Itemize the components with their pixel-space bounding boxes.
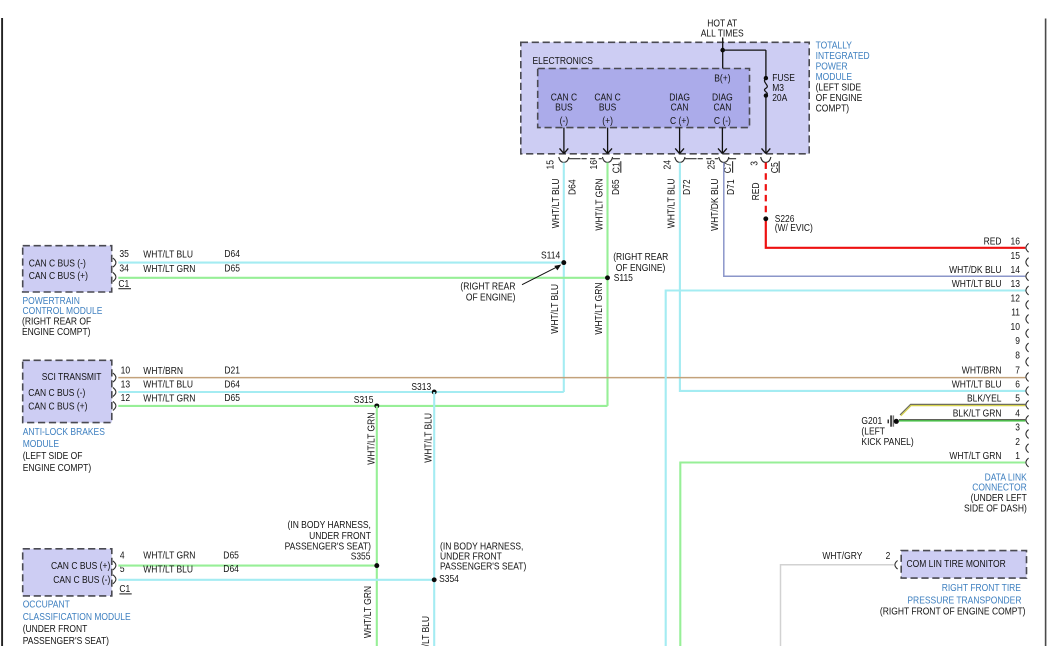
module Occupant Classification box [23,549,112,596]
svg-text:D65: D65 [224,264,240,275]
wire WHT/LT BLU D64 ABS pin13 to S114 drop [118,391,564,393]
svg-text:ENGINE COMPT): ENGINE COMPT) [23,463,92,474]
svg-text:ELECTRONICS: ELECTRONICS [533,56,593,67]
svg-text:(RIGHT REAR: (RIGHT REAR [613,252,668,263]
svg-text:WHT/LT BLU: WHT/LT BLU [952,279,1002,290]
wire WHT/LT BLU vertical S313 to S354 to bottom [433,392,435,646]
pin bracket ABS 10 [113,373,116,382]
svg-text:CAN C BUS (-): CAN C BUS (-) [28,388,85,399]
splice S355 [374,563,379,568]
wire BLK/YEL DLC pin 5 to G201 [900,404,1025,415]
module TIPM outer box (ELECTRONICS) [521,42,809,154]
svg-text:PASSENGER'S SEAT): PASSENGER'S SEAT) [23,636,109,646]
svg-text:3: 3 [750,161,761,166]
DLC pin 7 bracket and labels [1026,373,1029,382]
svg-text:5: 5 [1015,394,1020,405]
svg-text:SCI TRANSMIT: SCI TRANSMIT [42,372,102,383]
wire BLK/LT GRN DLC pin 4 to G201 [899,419,1025,421]
splice S114 [561,260,566,265]
ground G201 [888,420,890,424]
svg-text:15: 15 [1011,251,1021,262]
svg-text:C7: C7 [723,162,734,173]
wire WHT/LT GRN vertical S315 to S355 to bottom [376,406,378,646]
DLC pin 3 bracket and labels [1026,430,1029,439]
DLC pin 10 bracket and labels [1026,329,1029,338]
svg-text:S354: S354 [439,574,459,585]
svg-text:(IN BODY HARNESS,: (IN BODY HARNESS, [288,520,371,531]
svg-text:D64: D64 [224,379,240,390]
svg-text:ENGINE COMPT): ENGINE COMPT) [22,327,91,338]
DLC pin 16 bracket and labels [1026,243,1029,252]
svg-text:15: 15 [546,160,557,170]
svg-text:(RIGHT FRONT OF ENGINE COMPT): (RIGHT FRONT OF ENGINE COMPT) [880,606,1026,617]
svg-text:B(+): B(+) [714,74,730,85]
svg-text:PRESSURE TRANSPONDER: PRESSURE TRANSPONDER [907,596,1021,607]
splice S315 [374,403,379,408]
svg-text:3: 3 [1015,423,1020,434]
svg-text:WHT/LT GRN: WHT/LT GRN [143,393,195,404]
svg-text:WHT/LT GRN: WHT/LT GRN [595,179,606,231]
svg-text:CAN C BUS (-): CAN C BUS (-) [53,575,110,586]
svg-text:(UNDER FRONT: (UNDER FRONT [23,624,88,635]
right page border [1045,19,1047,646]
DLC pin 5 bracket and labels [1026,400,1029,409]
svg-text:WHT/DK BLU: WHT/DK BLU [949,265,1001,276]
wire RED dashed from pin 3 to S226 [765,163,767,219]
svg-text:BLK/LT GRN: BLK/LT GRN [953,409,1002,420]
svg-text:S115: S115 [614,273,633,284]
svg-text:COM LIN TIRE MONITOR: COM LIN TIRE MONITOR [907,559,1006,570]
svg-text:C1: C1 [611,162,622,173]
svg-text:WHT/LT BLU: WHT/LT BLU [667,179,678,229]
svg-text:16: 16 [589,160,600,170]
svg-text:S114: S114 [541,251,560,262]
module Anti-Lock Brakes box [23,360,112,422]
wire RED from S226 to DLC pin 16 [766,219,1026,248]
svg-text:WHT/LT BLU: WHT/LT BLU [551,179,562,229]
svg-text:RED: RED [751,183,762,201]
svg-text:TOTALLY: TOTALLY [816,41,852,52]
DLC pin 6 bracket and labels [1026,387,1029,396]
wire WHT/LT BLU D64 vertical from pin 15 [563,163,565,393]
splice S354 [432,577,437,582]
DLC pin 14 bracket and labels [1026,272,1029,281]
svg-text:20A: 20A [772,93,787,104]
svg-text:BLK/YEL: BLK/YEL [967,394,1002,405]
svg-text:(+): (+) [602,116,613,127]
svg-text:WHT/LT BLU: WHT/LT BLU [550,284,561,334]
svg-text:WHT/BRN: WHT/BRN [962,366,1002,377]
module COM LIN TIRE MONITOR box [901,551,1026,579]
svg-text:2: 2 [1015,437,1020,448]
svg-text:(LEFT SIDE: (LEFT SIDE [816,83,862,94]
wire WHT/LT GRN D65 OCM pin4 to S355 [118,565,377,567]
svg-text:CAN C BUS (-): CAN C BUS (-) [29,258,86,269]
svg-text:WHT/LT GRN: WHT/LT GRN [363,586,374,638]
svg-text:(-): (-) [560,116,569,127]
svg-text:WHT/LT BLU: WHT/LT BLU [421,616,432,646]
module Powertrain Control Module box [23,246,112,292]
svg-text:D72: D72 [682,179,693,195]
connector C1 pins 15-16 [559,157,569,162]
wire B(+) feed with junction [722,38,724,69]
svg-text:(RIGHT REAR OF: (RIGHT REAR OF [22,317,91,328]
svg-text:WHT/LT GRN: WHT/LT GRN [366,413,377,465]
wire WHT/DK BLU D71 from pin 25 to DLC pin 14 [724,163,1026,277]
svg-text:D64: D64 [224,249,240,260]
svg-text:COMPT): COMPT) [816,104,850,115]
pin bracket ABS 13 [113,388,116,397]
svg-text:CAN C BUS (+): CAN C BUS (+) [51,561,110,572]
svg-text:OCCUPANT: OCCUPANT [23,600,71,611]
DLC pin 15 bracket and labels [1026,258,1029,267]
svg-text:(UNDER LEFT: (UNDER LEFT [971,493,1028,504]
svg-text:24: 24 [663,160,674,170]
svg-text:S315: S315 [354,395,374,406]
svg-text:SIDE OF DASH): SIDE OF DASH) [964,504,1027,515]
svg-text:6: 6 [1015,380,1020,391]
wire WHT/LT BLU DLC pin 13 down to bottom [666,291,1026,646]
svg-text:RIGHT FRONT TIRE: RIGHT FRONT TIRE [942,583,1021,594]
pin bracket OCM 5 [113,575,116,584]
svg-text:25: 25 [707,160,718,170]
svg-text:C5: C5 [770,162,781,173]
wire WHT/LT BLU D64 OCM pin5 to S354 [118,579,434,581]
module TIPM inner box [538,69,750,128]
wire WHT/LT GRN D65 ABS pin12 to S115 drop [118,405,607,407]
svg-text:WHT/GRY: WHT/GRY [822,551,862,562]
svg-text:12: 12 [121,393,131,404]
svg-text:S355: S355 [351,552,371,563]
svg-text:C (-): C (-) [714,116,731,127]
DLC pin 13 bracket and labels [1026,286,1029,295]
svg-text:D64: D64 [567,179,578,195]
DLC pin 12 bracket and labels [1026,300,1029,309]
svg-text:8: 8 [1015,351,1020,362]
wire WHT/LT BLU D72 from pin 24 to DLC pin 6 [680,163,1025,391]
svg-text:1: 1 [1015,451,1020,462]
svg-text:WHT/DK BLU: WHT/DK BLU [710,179,721,231]
svg-text:MODULE: MODULE [23,439,60,450]
pin bracket tire monitor [895,561,898,570]
arrow DIAG CAN C (+) to pin 24 [679,128,681,154]
svg-text:7: 7 [1015,366,1020,377]
svg-text:MODULE: MODULE [816,72,853,83]
pin bracket PCM 35 [113,258,116,267]
svg-text:35: 35 [119,249,129,260]
pin bracket ABS 12 [113,401,116,410]
wire WHT/LT GRN D65 vertical from pin 16 [606,163,608,406]
svg-text:(LEFT SIDE OF: (LEFT SIDE OF [23,451,83,462]
svg-text:D21: D21 [224,366,240,377]
svg-text:PASSENGER'S SEAT): PASSENGER'S SEAT) [440,562,526,573]
svg-text:RED: RED [984,237,1002,248]
DLC pin 9 bracket and labels [1026,343,1029,352]
svg-text:POWER: POWER [816,62,848,73]
svg-text:10: 10 [1011,322,1021,333]
svg-text:BUS: BUS [555,103,573,114]
svg-text:CAN: CAN [671,103,689,114]
wire WHT/LT GRN D65 PCM pin34 to S115 [118,277,607,279]
svg-text:16: 16 [1011,237,1021,248]
DLC pin 2 bracket and labels [1026,444,1029,453]
pin bracket OCM 4 [113,561,116,570]
svg-text:WHT/LT BLU: WHT/LT BLU [143,249,193,260]
svg-text:4: 4 [1015,409,1020,420]
svg-text:S313: S313 [411,382,431,393]
svg-text:CONNECTOR: CONNECTOR [972,482,1027,493]
svg-text:G201: G201 [861,416,882,427]
splice S226 [763,216,768,221]
svg-text:INTEGRATED: INTEGRATED [816,51,870,62]
DLC pin 4 bracket and labels [1026,415,1029,424]
svg-text:WHT/LT GRN: WHT/LT GRN [143,264,195,275]
svg-text:13: 13 [121,379,131,390]
svg-text:OF ENGINE): OF ENGINE) [466,293,516,304]
svg-text:WHT/LT BLU: WHT/LT BLU [423,413,434,463]
svg-text:D64: D64 [223,564,239,575]
svg-text:CAN C BUS (+): CAN C BUS (+) [29,271,88,282]
svg-text:BUS: BUS [599,103,617,114]
svg-text:WHT/BRN: WHT/BRN [143,366,183,377]
svg-text:34: 34 [119,263,129,274]
splice S115 [605,275,610,280]
svg-text:(RIGHT REAR: (RIGHT REAR [460,282,515,293]
svg-text:OF ENGINE): OF ENGINE) [616,263,666,274]
wire WHT/LT GRN DLC pin 1 down to bottom [680,463,1025,646]
svg-text:D65: D65 [224,393,240,404]
svg-text:12: 12 [1011,294,1021,305]
svg-text:4: 4 [120,551,125,562]
svg-text:D65: D65 [611,179,622,195]
svg-text:CAN: CAN [713,103,731,114]
svg-text:D65: D65 [223,551,239,562]
connector C7 pins 24-25 [675,157,685,162]
svg-text:2: 2 [886,551,891,562]
DLC pin 1 bracket and labels [1026,458,1029,467]
svg-text:C (+): C (+) [670,116,689,127]
arrow CAN C BUS (-) to pin 15 [563,128,565,154]
svg-text:UNDER FRONT: UNDER FRONT [309,531,371,542]
svg-text:11: 11 [1011,308,1020,319]
svg-text:WHT/LT BLU: WHT/LT BLU [143,565,193,576]
left page border [1,18,3,646]
DLC pin 11 bracket and labels [1026,315,1029,324]
pin bracket PCM 34 [113,273,116,282]
svg-text:(W/ EVIC): (W/ EVIC) [775,223,813,234]
svg-text:D71: D71 [726,179,737,195]
svg-text:WHT/LT BLU: WHT/LT BLU [952,380,1002,391]
svg-text:13: 13 [1011,279,1021,290]
wire WHT/GRY to tire monitor [781,565,894,646]
svg-text:OF ENGINE: OF ENGINE [816,93,863,104]
splice S313 [432,390,437,395]
svg-text:CLASSIFICATION MODULE: CLASSIFICATION MODULE [23,612,131,623]
connector C5 pin 3 [761,157,771,162]
svg-text:CAN C BUS (+): CAN C BUS (+) [28,402,87,413]
svg-text:HOT AT: HOT AT [707,18,737,29]
svg-text:WHT/LT BLU: WHT/LT BLU [143,380,193,391]
fuse M3 20A [764,76,768,80]
svg-text:WHT/LT GRN: WHT/LT GRN [143,551,195,562]
svg-text:WHT/LT GRN: WHT/LT GRN [949,451,1001,462]
svg-text:14: 14 [1011,265,1021,276]
arrow DIAG CAN C (-) to pin 25 [721,128,723,154]
arrow CAN C BUS (+) to pin 16 [607,128,609,154]
svg-text:10: 10 [121,366,131,377]
svg-text:WHT/LT GRN: WHT/LT GRN [594,283,605,335]
wire WHT/LT BLU D64 PCM pin35 to S114 [118,262,564,264]
svg-text:KICK PANEL): KICK PANEL) [861,437,913,448]
wire WHT/BRN D21 ABS pin10 to DLC pin 7 [118,377,1025,379]
DLC pin 8 bracket and labels [1026,357,1029,366]
svg-text:ANTI-LOCK BRAKES: ANTI-LOCK BRAKES [23,427,105,438]
svg-text:9: 9 [1015,336,1020,347]
